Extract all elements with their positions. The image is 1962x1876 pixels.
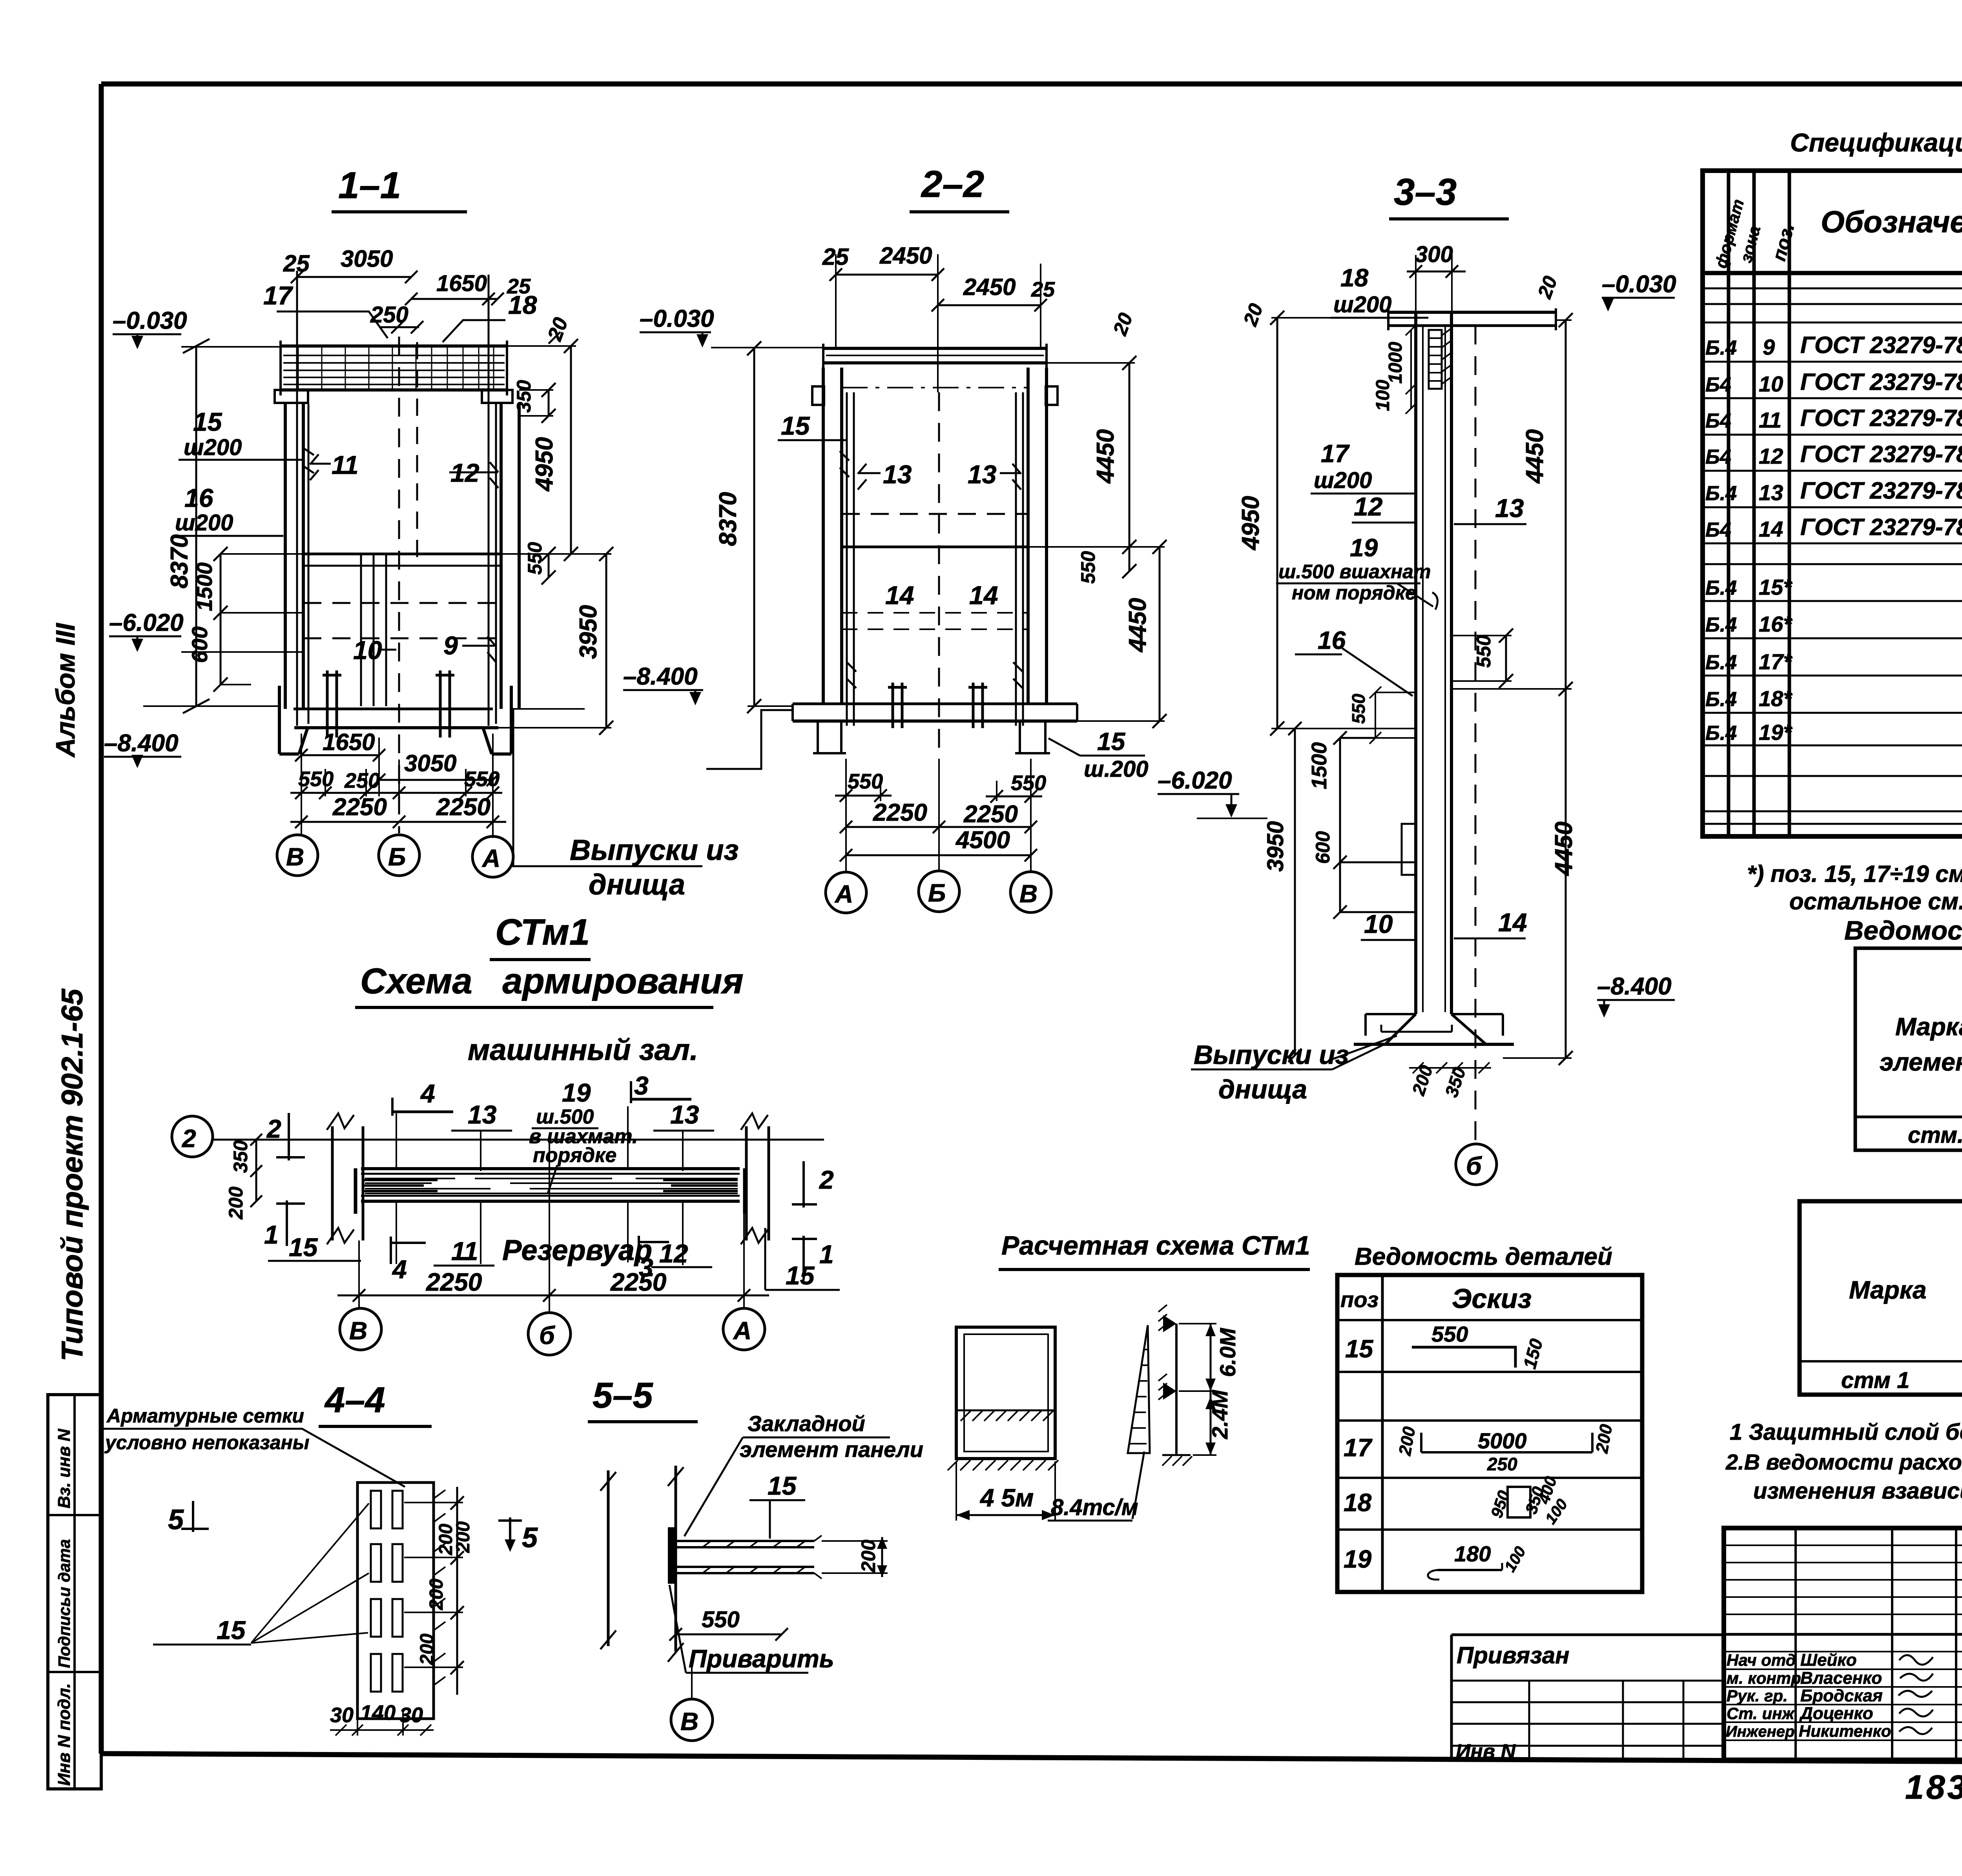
svg-text:5: 5 bbox=[522, 1522, 538, 1554]
title block bbox=[1451, 1528, 1962, 1763]
footing bbox=[1385, 1014, 1486, 1044]
dim 8370 left bbox=[183, 339, 210, 713]
svg-text:ГОСТ 23279-78: ГОСТ 23279-78 bbox=[1800, 477, 1962, 504]
svg-text:В: В bbox=[1019, 880, 1038, 908]
header row bbox=[1703, 271, 1962, 275]
svg-text:2450: 2450 bbox=[963, 274, 1016, 300]
svg-text:250: 250 bbox=[1487, 1454, 1517, 1474]
svg-text:15: 15 bbox=[768, 1471, 797, 1500]
svg-text:550: 550 bbox=[1348, 694, 1369, 724]
svg-text:–8.400: –8.400 bbox=[104, 730, 179, 757]
svg-text:3050: 3050 bbox=[341, 246, 393, 272]
svg-text:5000: 5000 bbox=[1478, 1428, 1527, 1453]
svg-text:Типовой проект 902.1-65: Типовой проект 902.1-65 bbox=[56, 988, 89, 1361]
svg-text:Подписьи дата: Подписьи дата bbox=[55, 1539, 73, 1668]
svg-text:ш.200: ш.200 bbox=[1084, 756, 1148, 782]
title block outer bbox=[1724, 1528, 1962, 1760]
axis circle А bbox=[472, 836, 513, 877]
section mark 5 right bbox=[498, 1517, 522, 1547]
svg-text:2250: 2250 bbox=[426, 1268, 482, 1296]
svg-text:ш200: ш200 bbox=[184, 435, 242, 460]
svg-text:19: 19 bbox=[562, 1078, 591, 1107]
row lines bbox=[1703, 288, 1962, 824]
svg-text:4–4: 4–4 bbox=[324, 1380, 385, 1420]
svg-text:13: 13 bbox=[670, 1100, 699, 1129]
svg-text:остальное см. спецификация ис: остальное см. спецификация исполнения bbox=[1789, 888, 1962, 914]
svg-text:ГОСТ 23279-78: ГОСТ 23279-78 bbox=[1800, 441, 1962, 467]
axis dashed Б bbox=[398, 337, 400, 833]
signature squiggles bbox=[1898, 1655, 1933, 1734]
rebar bars bbox=[297, 271, 496, 726]
svg-text:Б4: Б4 bbox=[1705, 410, 1731, 432]
svg-text:100: 100 bbox=[1373, 380, 1393, 411]
top slab with mesh bbox=[281, 346, 507, 390]
svg-text:250: 250 bbox=[344, 769, 380, 792]
svg-text:16*: 16* bbox=[1759, 612, 1792, 636]
svg-text:элемент панели: элемент панели bbox=[740, 1437, 923, 1462]
svg-text:15: 15 bbox=[217, 1616, 246, 1645]
svg-text:4450: 4450 bbox=[1550, 821, 1577, 876]
svg-text:18: 18 bbox=[508, 290, 537, 319]
svg-text:Ведомость расхода стали на: Ведомость расхода стали на один элемент,… bbox=[1844, 916, 1962, 945]
svg-text:*) поз. 15, 17÷19 см. вед: *) поз. 15, 17÷19 см. ведомость деталей bbox=[1747, 861, 1962, 887]
mesh plate bbox=[357, 1483, 434, 1719]
section 4-4 detail bbox=[103, 1380, 538, 1736]
svg-text:4500: 4500 bbox=[955, 827, 1010, 854]
svg-text:3050: 3050 bbox=[404, 750, 456, 776]
vertical dividers bbox=[1796, 1528, 1956, 1760]
svg-text:ГОСТ 23279-78: ГОСТ 23279-78 bbox=[1800, 405, 1962, 431]
svg-text:17: 17 bbox=[1344, 1433, 1373, 1462]
bottom dim chain bbox=[301, 734, 493, 838]
table outer bbox=[1800, 1201, 1962, 1395]
svg-text:ГОСТ 23279-78: ГОСТ 23279-78 bbox=[1800, 514, 1962, 540]
svg-text:10: 10 bbox=[1364, 909, 1393, 938]
svg-text:4: 4 bbox=[392, 1255, 407, 1284]
svg-text:3950: 3950 bbox=[575, 605, 602, 659]
wall faces bbox=[1416, 312, 1451, 1014]
svg-text:13: 13 bbox=[468, 1100, 496, 1129]
wall step bbox=[1402, 824, 1416, 875]
table outer bbox=[1703, 171, 1962, 836]
walls bbox=[823, 368, 1047, 704]
svg-text:днища: днища bbox=[1218, 1075, 1307, 1104]
svg-text:13: 13 bbox=[968, 460, 996, 489]
axis line 2 bbox=[213, 1139, 824, 1141]
svg-text:Б.4: Б.4 bbox=[1705, 651, 1737, 674]
svg-text:15: 15 bbox=[781, 411, 810, 440]
table grid bbox=[1337, 1275, 1642, 1592]
section 2-2 bbox=[623, 163, 1167, 913]
wall strip bbox=[608, 1466, 676, 1652]
svg-text:Расчетная схема СТм1: Расчетная схема СТм1 bbox=[1001, 1231, 1310, 1260]
axis circle Б bbox=[919, 871, 959, 912]
svg-text:–0.030: –0.030 bbox=[1602, 271, 1676, 298]
svg-text:3950: 3950 bbox=[1263, 821, 1288, 872]
section 5-5 detail bbox=[588, 1375, 923, 1741]
plan circle В bbox=[340, 1308, 381, 1350]
svg-text:Б.4: Б.4 bbox=[1705, 482, 1737, 505]
svg-text:18*: 18* bbox=[1759, 686, 1792, 711]
svg-text:В: В bbox=[349, 1317, 367, 1345]
svg-text:Резервуар: Резервуар bbox=[502, 1234, 652, 1266]
svg-text:8370: 8370 bbox=[166, 534, 193, 588]
svg-text:550: 550 bbox=[298, 767, 334, 791]
ведомость деталей table bbox=[1337, 1243, 1642, 1592]
svg-text:–0.030: –0.030 bbox=[113, 307, 187, 334]
svg-text:стм. 1: стм. 1 bbox=[1908, 1122, 1962, 1148]
svg-text:600: 600 bbox=[1312, 831, 1334, 864]
rebar lines in band bbox=[365, 1178, 738, 1193]
svg-text:15: 15 bbox=[1097, 727, 1126, 756]
svg-text:ш200: ш200 bbox=[1333, 292, 1391, 317]
svg-text:–6.020: –6.020 bbox=[109, 609, 184, 636]
plan circle Б bbox=[528, 1313, 571, 1355]
left thin rows bbox=[1724, 1545, 1962, 1614]
plan СТм1 scheme bbox=[172, 911, 840, 1355]
спецификация table bbox=[1703, 128, 1962, 914]
svg-text:200: 200 bbox=[426, 1579, 447, 1610]
load triangle bbox=[1128, 1325, 1150, 1453]
svg-text:11: 11 bbox=[1759, 408, 1781, 432]
svg-text:днища: днища bbox=[589, 868, 685, 901]
svg-text:14: 14 bbox=[1498, 908, 1527, 937]
svg-text:Альбом III: Альбом III bbox=[51, 623, 80, 758]
right pier with break bbox=[746, 1126, 769, 1240]
svg-text:2250: 2250 bbox=[963, 801, 1018, 828]
svg-text:Инв N подл.: Инв N подл. bbox=[55, 1683, 74, 1786]
svg-text:18305-01 13: 18305-01 13 bbox=[1905, 1769, 1962, 1806]
svg-text:ш.500 вшахнат: ш.500 вшахнат bbox=[1278, 561, 1431, 583]
svg-text:1650: 1650 bbox=[436, 271, 487, 296]
svg-text:м. контр: м. контр bbox=[1727, 1669, 1801, 1687]
svg-text:ш200: ш200 bbox=[1314, 468, 1372, 493]
svg-text:2250: 2250 bbox=[332, 794, 387, 821]
svg-text:В: В bbox=[680, 1707, 698, 1736]
svg-text:2250: 2250 bbox=[436, 794, 491, 821]
ведомость расхода стали table bbox=[1844, 916, 1962, 1150]
svg-text:200: 200 bbox=[417, 1634, 438, 1665]
svg-text:14: 14 bbox=[1759, 517, 1783, 541]
svg-text:2–2: 2–2 bbox=[921, 163, 984, 205]
svg-text:3: 3 bbox=[634, 1071, 649, 1100]
svg-text:Схема армирования: Схема армирования bbox=[360, 961, 744, 1001]
svg-text:19*: 19* bbox=[1759, 720, 1792, 745]
svg-text:18: 18 bbox=[1344, 1488, 1372, 1517]
section mark 3 bottom bbox=[639, 1236, 669, 1262]
axis circle В bbox=[277, 835, 318, 876]
svg-text:ш200: ш200 bbox=[175, 510, 233, 535]
svg-text:17: 17 bbox=[263, 281, 294, 310]
svg-text:2250: 2250 bbox=[873, 799, 927, 826]
svg-text:Привязан: Привязан bbox=[1457, 1642, 1569, 1668]
svg-text:19: 19 bbox=[1344, 1545, 1372, 1573]
section mark 4 top bbox=[391, 1098, 394, 1116]
svg-text:2.4М: 2.4М bbox=[1207, 1390, 1232, 1439]
svg-text:Марка: Марка bbox=[1895, 1013, 1962, 1041]
svg-text:200: 200 bbox=[857, 1539, 879, 1573]
section 3-3 bbox=[1158, 171, 1676, 1185]
svg-text:12: 12 bbox=[1354, 492, 1383, 521]
svg-text:4 5м: 4 5м bbox=[979, 1484, 1034, 1512]
soil hatch inside bbox=[956, 1410, 1055, 1412]
svg-text:Б4: Б4 bbox=[1705, 373, 1731, 396]
svg-text:Б.4: Б.4 bbox=[1705, 614, 1737, 636]
middle slab bbox=[303, 553, 501, 556]
svg-text:14: 14 bbox=[885, 581, 914, 610]
svg-text:Б: Б bbox=[388, 843, 406, 871]
svg-text:1 Защитный слой бетона для раб: 1 Защитный слой бетона для рабочей армат… bbox=[1730, 1419, 1962, 1445]
svg-text:4950: 4950 bbox=[1237, 496, 1264, 551]
svg-text:350: 350 bbox=[513, 380, 535, 413]
svg-text:1500: 1500 bbox=[192, 562, 217, 611]
wall sketch rectangle bbox=[956, 1327, 1055, 1459]
svg-text:поз: поз bbox=[1340, 1287, 1379, 1312]
middle slab lines bbox=[842, 546, 1028, 548]
notes bbox=[1725, 1419, 1962, 1504]
svg-text:Закладной: Закладной bbox=[748, 1411, 865, 1436]
svg-text:10: 10 bbox=[1759, 372, 1783, 396]
svg-text:25: 25 bbox=[1031, 278, 1055, 301]
svg-text:15: 15 bbox=[193, 407, 222, 436]
svg-text:550: 550 bbox=[524, 542, 546, 575]
svg-text:Арматурные сетки: Арматурные сетки bbox=[106, 1405, 304, 1427]
svg-text:13: 13 bbox=[1495, 494, 1524, 523]
svg-text:Б.4: Б.4 bbox=[1705, 688, 1737, 711]
svg-text:б: б bbox=[1466, 1152, 1482, 1180]
svg-text:Марка: Марка bbox=[1849, 1276, 1927, 1304]
bottom dims bbox=[846, 759, 1031, 873]
svg-text:Шейко: Шейко bbox=[1800, 1650, 1857, 1670]
left stamp column bbox=[48, 1395, 101, 1789]
corbels bbox=[812, 386, 1058, 405]
svg-text:4450: 4450 bbox=[1092, 429, 1119, 484]
svg-text:Выпуски из: Выпуски из bbox=[1194, 1040, 1349, 1070]
svg-text:Никитенко: Никитенко bbox=[1799, 1722, 1891, 1740]
dims 6.0м 2.4м bbox=[1210, 1324, 1212, 1455]
svg-text:Б4: Б4 bbox=[1705, 446, 1731, 468]
svg-text:2450: 2450 bbox=[879, 242, 932, 269]
axis dashed bbox=[1475, 326, 1477, 1144]
dim 1500 600 bbox=[213, 547, 228, 692]
footing bbox=[793, 703, 1077, 705]
svg-text:–8.400: –8.400 bbox=[623, 663, 698, 690]
section lines through band bbox=[396, 1106, 683, 1265]
svg-text:550: 550 bbox=[1077, 551, 1099, 584]
svg-text:Рук. гр.: Рук. гр. bbox=[1727, 1687, 1788, 1705]
svg-text:Обозначение: Обозначение bbox=[1821, 204, 1962, 239]
axis circle В bbox=[691, 1663, 693, 1699]
svg-text:ном порядке: ном порядке bbox=[1292, 582, 1416, 604]
svg-text:8370: 8370 bbox=[715, 492, 742, 546]
svg-text:16: 16 bbox=[184, 483, 214, 512]
top slab stub bbox=[1388, 311, 1556, 314]
svg-text:10: 10 bbox=[353, 636, 382, 665]
расчетная схема СТм1 bbox=[948, 1231, 1310, 1521]
svg-text:550: 550 bbox=[464, 767, 500, 791]
svg-text:12: 12 bbox=[1759, 444, 1783, 468]
svg-text:3–3: 3–3 bbox=[1394, 171, 1457, 213]
left pier with break bbox=[332, 1126, 363, 1240]
svg-text:11: 11 bbox=[451, 1237, 478, 1266]
plan circle А bbox=[723, 1308, 765, 1350]
svg-text:Приварить: Приварить bbox=[689, 1645, 834, 1673]
svg-text:4: 4 bbox=[420, 1079, 435, 1108]
svg-text:5–5: 5–5 bbox=[593, 1375, 653, 1415]
svg-text:8.4тс/м: 8.4тс/м bbox=[1051, 1495, 1138, 1520]
svg-text:изменения взависимости от ма: изменения взависимости от марки насоса bbox=[1753, 1478, 1962, 1504]
изделие закладное table bbox=[1800, 1201, 1962, 1395]
svg-text:Власенко: Власенко bbox=[1800, 1668, 1882, 1688]
rebar bars bbox=[847, 392, 1023, 726]
axis circle Б bbox=[379, 835, 419, 876]
svg-text:Б4: Б4 bbox=[1705, 519, 1731, 541]
svg-text:Бродская: Бродская bbox=[1800, 1686, 1883, 1705]
svg-text:1–1: 1–1 bbox=[338, 164, 401, 206]
top slab bbox=[823, 348, 1047, 363]
section mark 3 top bbox=[630, 1081, 632, 1103]
svg-text:18: 18 bbox=[1340, 264, 1369, 292]
svg-text:ГОСТ 23279-78: ГОСТ 23279-78 bbox=[1800, 369, 1962, 395]
svg-text:Инв N: Инв N bbox=[1456, 1740, 1516, 1763]
svg-text:порядке: порядке bbox=[533, 1144, 616, 1167]
svg-text:В: В bbox=[286, 843, 304, 871]
svg-text:250: 250 bbox=[370, 302, 408, 328]
svg-text:А: А bbox=[834, 880, 853, 908]
svg-text:600: 600 bbox=[187, 627, 212, 663]
svg-text:11: 11 bbox=[332, 450, 359, 479]
svg-text:550: 550 bbox=[702, 1607, 740, 1632]
svg-text:А: А bbox=[733, 1317, 751, 1345]
svg-text:5: 5 bbox=[168, 1504, 184, 1535]
svg-text:17: 17 bbox=[1321, 439, 1350, 468]
svg-text:СТм1: СТм1 bbox=[495, 911, 590, 953]
svg-text:условно непоказаны: условно непоказаны bbox=[104, 1432, 310, 1453]
svg-text:1650: 1650 bbox=[323, 729, 375, 755]
svg-text:14: 14 bbox=[969, 581, 998, 610]
svg-text:машинный зал.: машинный зал. bbox=[468, 1033, 698, 1067]
axis circle А bbox=[826, 872, 866, 913]
svg-text:550: 550 bbox=[1431, 1322, 1468, 1346]
svg-text:12: 12 bbox=[659, 1239, 688, 1268]
footing bbox=[294, 708, 493, 710]
axis circle 2 bbox=[172, 1116, 213, 1157]
svg-text:Выпуски из: Выпуски из bbox=[570, 834, 738, 866]
svg-text:2250: 2250 bbox=[610, 1268, 666, 1296]
svg-text:–8.400: –8.400 bbox=[1597, 973, 1672, 1000]
axis circle Б bbox=[1456, 1144, 1497, 1185]
svg-text:30: 30 bbox=[330, 1703, 354, 1727]
svg-text:1: 1 bbox=[264, 1220, 279, 1249]
rebar outlets bbox=[888, 683, 987, 728]
svg-text:элемента: элемента bbox=[1880, 1048, 1962, 1076]
svg-text:2: 2 bbox=[819, 1165, 834, 1194]
svg-text:Ведомость деталей: Ведомость деталей bbox=[1355, 1243, 1612, 1270]
svg-text:15: 15 bbox=[786, 1261, 815, 1290]
svg-text:15*: 15* bbox=[1759, 575, 1792, 599]
svg-text:550: 550 bbox=[848, 770, 883, 793]
anchor bars bbox=[676, 1541, 814, 1573]
svg-text:Б: Б bbox=[928, 879, 946, 907]
svg-text:13: 13 bbox=[1759, 480, 1783, 505]
vertical lines bbox=[1729, 171, 1962, 836]
svg-text:Инженер: Инженер bbox=[1726, 1723, 1794, 1740]
svg-text:Нач отд: Нач отд bbox=[1727, 1651, 1796, 1669]
section 1-1 bbox=[104, 164, 738, 901]
svg-text:140: 140 bbox=[360, 1701, 396, 1725]
svg-text:180: 180 bbox=[1454, 1541, 1491, 1566]
corbels bbox=[275, 390, 512, 403]
embedded plate bbox=[668, 1527, 676, 1584]
mesh slots bbox=[371, 1491, 403, 1692]
svg-text:550: 550 bbox=[1011, 771, 1046, 795]
svg-text:2.В ведомости расхода стали са: 2.В ведомости расхода стали сальчики не … bbox=[1725, 1450, 1962, 1474]
привязан table bbox=[1451, 1635, 1724, 1760]
svg-text:–6.020: –6.020 bbox=[1158, 767, 1232, 794]
svg-text:2: 2 bbox=[266, 1114, 281, 1143]
svg-text:25: 25 bbox=[283, 250, 310, 277]
leader step from footing 2-2 bbox=[706, 710, 793, 769]
rebar outlets from bottom bbox=[323, 670, 341, 738]
svg-text:9: 9 bbox=[443, 631, 458, 660]
svg-text:200: 200 bbox=[453, 1521, 474, 1553]
svg-text:1000: 1000 bbox=[1385, 342, 1406, 384]
svg-text:19: 19 bbox=[1350, 534, 1378, 562]
svg-text:ГОСТ 23279-78: ГОСТ 23279-78 bbox=[1800, 332, 1962, 358]
svg-text:300: 300 bbox=[1415, 242, 1453, 267]
wall rebar cluster bbox=[361, 554, 386, 706]
svg-text:Б.4: Б.4 bbox=[1705, 577, 1737, 599]
walls bbox=[285, 403, 519, 709]
svg-text:Б.4: Б.4 bbox=[1705, 722, 1737, 745]
svg-text:–0.030: –0.030 bbox=[640, 305, 714, 332]
axis circle В bbox=[1010, 872, 1051, 913]
svg-text:4950: 4950 bbox=[531, 437, 558, 492]
svg-text:16: 16 bbox=[1318, 626, 1346, 654]
svg-text:стм 1: стм 1 bbox=[1841, 1368, 1909, 1393]
svg-text:13: 13 bbox=[883, 460, 912, 489]
section mark 4 bottom bbox=[391, 1237, 426, 1264]
svg-text:А: А bbox=[481, 844, 500, 872]
svg-text:1: 1 bbox=[819, 1240, 834, 1269]
svg-text:15: 15 bbox=[289, 1233, 318, 1262]
wall band plan bbox=[361, 1167, 740, 1170]
svg-text:Б.4: Б.4 bbox=[1705, 337, 1737, 359]
svg-text:Вз. инв N: Вз. инв N bbox=[55, 1428, 74, 1508]
svg-text:350: 350 bbox=[230, 1140, 252, 1173]
svg-text:4450: 4450 bbox=[1521, 429, 1548, 484]
ladder insert bbox=[1429, 330, 1442, 389]
svg-text:Эскиз: Эскиз bbox=[1452, 1283, 1532, 1314]
svg-text:Доценко: Доценко bbox=[1799, 1704, 1873, 1723]
svg-text:Спецификация к стене СТм1: Спецификация к стене СТм1 bbox=[1790, 128, 1962, 157]
right dim chain 200s bbox=[450, 1487, 464, 1695]
svg-text:б: б bbox=[539, 1321, 556, 1350]
svg-text:1500: 1500 bbox=[1307, 742, 1331, 789]
support scheme column bbox=[1175, 1324, 1178, 1455]
svg-text:9: 9 bbox=[1763, 335, 1775, 359]
svg-text:2: 2 bbox=[182, 1124, 196, 1153]
svg-text:17*: 17* bbox=[1759, 649, 1792, 674]
svg-text:6.0М: 6.0М bbox=[1215, 1328, 1240, 1377]
svg-text:15: 15 bbox=[1345, 1335, 1374, 1363]
svg-text:4450: 4450 bbox=[1124, 598, 1151, 653]
svg-text:Ст. инж: Ст. инж bbox=[1727, 1704, 1795, 1723]
svg-text:200: 200 bbox=[225, 1186, 247, 1220]
table outer bbox=[1855, 948, 1962, 1150]
